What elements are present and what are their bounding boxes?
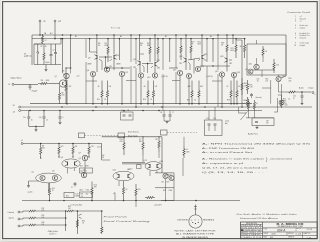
svg-text:R28: R28 (163, 190, 166, 192)
resistor 220 (158, 137, 160, 152)
wire emitter q21 (142, 65, 144, 67)
svg-text:2N398: 2N398 (116, 64, 121, 66)
wire midline (102, 136, 162, 138)
resistor R16 1K (122, 181, 124, 201)
svg-text:+10: +10 (81, 196, 84, 198)
svg-text:100: 100 (266, 80, 269, 82)
capacitor C3 250pF (29, 84, 31, 86)
svg-text:2K: 2K (221, 45, 224, 47)
wire x207 drop (206, 39, 208, 62)
svg-text:Q32: Q32 (245, 69, 248, 71)
svg-text:470: 470 (266, 123, 269, 125)
svg-text:2K2: 2K2 (61, 146, 64, 148)
svg-text:47K: 47K (69, 86, 73, 88)
wire x207 lower (206, 66, 208, 104)
wire (65, 95, 67, 104)
transistor pinout circle (189, 215, 202, 228)
wire emitter q22 (151, 66, 153, 68)
svg-text:ground R: ground R (155, 203, 163, 206)
ground (35, 126, 37, 128)
resistor row x236 (235, 39, 237, 58)
wire pair base join 1 (99, 56, 112, 58)
svg-text:Output: Output (300, 26, 306, 29)
svg-text:DATE: DATE (264, 236, 268, 239)
wire drop (118, 39, 120, 60)
scan edge right (319, 0, 320, 242)
resistor pair x148 (147, 84, 149, 104)
terminal output (312, 92, 314, 94)
rail A (30, 103, 252, 105)
svg-text:Control: Control (8, 211, 15, 214)
svg-text:Q28: Q28 (220, 56, 223, 58)
svg-text:TITLE: TITLE (264, 229, 268, 231)
pot marker (114, 193, 116, 201)
transistor fund marks (79, 214, 82, 216)
svg-text:C22: C22 (257, 78, 260, 80)
svg-text:-C: -C (300, 21, 303, 23)
wire h y81 c (172, 80, 180, 82)
svg-text:2.2: 2.2 (288, 98, 290, 100)
wire (253, 69, 275, 71)
transistor Q20 (231, 72, 236, 77)
svg-text:R10: R10 (97, 99, 100, 101)
svg-text:C: C (198, 220, 199, 222)
rail junctions (66, 103, 68, 105)
svg-text:39K: 39K (94, 187, 98, 189)
bus rail 1 (32, 34, 286, 36)
resistor R13 (91, 182, 93, 201)
svg-text:1K: 1K (227, 86, 230, 88)
wire (29, 83, 39, 85)
svg-text:Q9: Q9 (88, 58, 90, 60)
svg-text:R52: R52 (266, 78, 269, 80)
svg-text:unless otherwise marked: unless otherwise marked (270, 157, 293, 160)
wire (185, 62, 187, 71)
svg-text:2N3: 2N3 (229, 63, 232, 65)
svg-text:2N3: 2N3 (157, 68, 160, 70)
svg-text:Output: Output (308, 86, 314, 89)
svg-text:+50: +50 (39, 117, 42, 119)
terminal rail C (19, 110, 21, 112)
svg-text:Connector Detail: Connector Detail (287, 11, 311, 14)
title block blob (241, 229, 243, 231)
wire h y54 b (140, 53, 144, 55)
svg-text:IN PARENTHESES: IN PARENTHESES (182, 236, 209, 239)
svg-text:10: 10 (294, 45, 296, 47)
transistor Q7 (59, 80, 66, 87)
svg-text:-B: -B (13, 105, 16, 107)
wire column (66, 80, 68, 104)
svg-text:Q?: Q? (79, 153, 81, 155)
svg-text:+10: +10 (204, 60, 207, 62)
capacitor C23 (251, 93, 253, 94)
svg-text:6K8: 6K8 (147, 45, 150, 47)
dashed boundary right (167, 132, 197, 134)
wire bus end (232, 35, 234, 44)
wire (277, 98, 279, 112)
svg-text:1K: 1K (126, 189, 129, 191)
svg-text:C1 B: C1 B (97, 147, 102, 149)
wire fund vertical (76, 211, 78, 234)
svg-text:R12: R12 (52, 188, 55, 190)
bus rail 2 (32, 38, 245, 40)
wire column (92, 77, 94, 104)
svg-text:Q8: Q8 (87, 70, 89, 72)
resistor row x191 (190, 39, 192, 60)
svg-text:2K: 2K (191, 44, 194, 46)
cap cluster x162 (163, 111, 165, 115)
matched pair oval Q4 Q5 (62, 159, 80, 168)
wire left edge drop (31, 35, 33, 65)
wire x176 drop (175, 35, 177, 68)
junction (39, 34, 41, 36)
svg-text:1K: 1K (194, 100, 196, 102)
svg-text:Q4: Q4 (61, 157, 63, 159)
wire (299, 91, 312, 93)
svg-text:6K8: 6K8 (231, 50, 234, 52)
resistor pair x192 (191, 84, 193, 104)
label R21 box (80, 192, 93, 198)
transistor Q16 (177, 70, 182, 75)
svg-text:R27: R27 (167, 182, 170, 184)
wire (246, 117, 274, 119)
svg-text:470: 470 (120, 141, 123, 143)
wire drop (226, 35, 228, 39)
svg-text:25: 25 (121, 110, 123, 112)
resistor R51 (246, 97, 248, 107)
svg-text:R. A. MOOG CO: R. A. MOOG CO (277, 222, 304, 226)
svg-text:A₃: in circuit Pinout Set: A₃: in circuit Pinout Set (202, 151, 253, 154)
wire row continue (75, 210, 102, 212)
resistor 4K7 (142, 137, 144, 155)
svg-text:A₂: PNP Transistors 2N 404: A₂: PNP Transistors 2N 404 (202, 147, 256, 150)
wire input join vertical (65, 211, 67, 231)
wire interconnect y68c (200, 65, 230, 67)
wire x163 lower (162, 74, 164, 111)
svg-text:Q14: Q14 (147, 77, 150, 79)
wire fund right vertical (101, 211, 103, 226)
transistor Q11 (104, 67, 109, 72)
resistor R18 (135, 184, 137, 201)
wire vertical x242 (241, 40, 243, 107)
resistor row x227 (226, 39, 228, 58)
resistor fund2 (101, 226, 103, 234)
cap cluster x122 (121, 112, 134, 120)
big matched pair oval Q1 Q2 (36, 173, 62, 183)
svg-text:4K: 4K (98, 86, 101, 88)
svg-text:audio: audio (28, 192, 34, 194)
pot arrow (241, 112, 248, 121)
svg-text:C16: C16 (213, 118, 216, 120)
svg-text:10K: 10K (42, 148, 46, 150)
wire (183, 137, 185, 146)
svg-text:A2: A2 (120, 35, 122, 38)
wire interconnect y68 (104, 67, 130, 69)
resistor R5 (65, 80, 67, 96)
rail C (21, 110, 262, 112)
resistor pair x231 (230, 84, 232, 104)
svg-text:Q18: Q18 (201, 66, 204, 68)
svg-text:(+1/2 B): (+1/2 B) (161, 76, 168, 78)
boundary box a (79, 133, 85, 138)
title block left rows (241, 223, 263, 225)
svg-text:REVISIONS: REVISIONS (246, 223, 257, 225)
svg-text:Fund Control Routing.: Fund Control Routing. (104, 220, 152, 223)
resistor 1K box (262, 46, 264, 58)
svg-text:6K8: 6K8 (198, 44, 201, 46)
wire (278, 82, 280, 92)
wire h y50 a (90, 51, 97, 53)
title hline3 (263, 234, 318, 236)
wire (23, 143, 102, 145)
control input terminal 2 (18, 218, 20, 220)
svg-text:For Sub. Audio ¾ Modules w: For Sub. Audio ¾ Modules with John (237, 213, 298, 216)
wire (278, 75, 280, 77)
svg-text:DWG NO: DWG NO (288, 233, 294, 235)
title block outer (241, 222, 318, 239)
svg-text:1K5: 1K5 (161, 182, 164, 184)
wire drop (185, 35, 187, 58)
svg-text:Q11: Q11 (127, 169, 130, 171)
wire (270, 80, 272, 104)
svg-text:2K: 2K (140, 45, 143, 47)
wire (281, 95, 283, 98)
svg-text:R21: R21 (81, 193, 84, 195)
svg-text:Ground: Ground (300, 36, 306, 39)
transistor Q6b (82, 155, 88, 161)
right mid box (155, 173, 174, 201)
svg-text:inputs: inputs (9, 216, 14, 219)
wire x183 down (182, 158, 184, 176)
svg-text:Signal Input: Signal Input (11, 76, 22, 79)
resistor R12 1K (48, 183, 50, 201)
svg-text:A₁: NPN Transistors) 2N 33: A₁: NPN Transistors) 2N 3392 (Except Q 3… (202, 142, 311, 145)
svg-text:50+: 50+ (23, 117, 26, 119)
transistor Q34 (279, 100, 284, 105)
svg-text:R28: R28 (227, 100, 230, 102)
ground (256, 126, 258, 127)
svg-text:ECN 2041 B 9-2: ECN 2041 B 9-2 (241, 228, 261, 230)
resistor row x181 (180, 39, 182, 60)
resistor R1 24 (41, 35, 43, 44)
svg-text:5: 5 (295, 27, 296, 29)
resistor 3K x244.6 (244, 39, 246, 58)
svg-text:Q16: Q16 (173, 70, 176, 72)
svg-text:Keybd: Keybd (300, 45, 305, 47)
transistor Q28 (226, 58, 228, 62)
resistor 1M (38, 82, 50, 84)
svg-text:A MOUNTING: A MOUNTING (178, 218, 190, 221)
resistor pair x102 (101, 84, 103, 104)
svg-text:R35: R35 (68, 206, 71, 208)
svg-text:Lamp: Lamp (225, 121, 229, 123)
svg-text:47K: 47K (102, 157, 105, 159)
resistor R50b (246, 80, 248, 94)
capacitor C24 (301, 91, 303, 93)
svg-text:R2: R2 (41, 46, 43, 48)
capacitor C1 120uF (50, 44, 52, 55)
output stage box (247, 44, 286, 75)
wire (67, 168, 69, 174)
wire pair base join 4 (229, 59, 232, 61)
svg-text:M: M (9, 84, 11, 86)
svg-text:100K: 100K (186, 152, 190, 154)
svg-text:4.7K: 4.7K (91, 146, 95, 148)
wire (123, 111, 125, 113)
svg-text:R57: R57 (284, 101, 287, 103)
svg-text:(Bias: (Bias (80, 190, 84, 192)
resistor R50 (241, 78, 243, 95)
wire column (233, 78, 235, 104)
resistor x2b (253, 100, 255, 111)
svg-text:Hammond Of the Above: Hammond Of the Above (240, 217, 279, 220)
svg-text:C2 .1: C2 .1 (53, 50, 57, 52)
svg-text:Q13: Q13 (160, 161, 163, 163)
transistor Q25 (201, 55, 203, 59)
svg-text:Q31: Q31 (282, 76, 285, 78)
title hline2 (263, 231, 318, 233)
svg-text:Q10: Q10 (116, 55, 119, 57)
resistor fund (76, 219, 78, 228)
zener D1 (37, 44, 39, 52)
svg-text:120µF: 120µF (45, 62, 50, 64)
svg-text:R6: R6 (62, 93, 64, 95)
resistor 15.4 (273, 59, 275, 73)
boundary box b (118, 133, 125, 138)
svg-text:1.5K: 1.5K (284, 103, 287, 105)
svg-text:A.2: A.2 (50, 32, 53, 35)
svg-text:F i l t e red: F i l t e red (111, 27, 120, 30)
transistor Q10 (113, 55, 115, 59)
svg-text:Audio Pass: Audio Pass (247, 132, 258, 135)
matched pair oval mid (113, 171, 134, 181)
svg-text:DWN 4 SEE EC: DWN 4 SEE EC (241, 234, 261, 236)
svg-text:1K: 1K (150, 99, 152, 101)
transistor Q19 (219, 72, 224, 77)
wire column (188, 79, 190, 104)
rail B (21, 106, 312, 108)
svg-text:470K: 470K (85, 166, 90, 168)
svg-text:.05: .05 (257, 80, 259, 82)
capacitor C7 (74, 182, 76, 183)
wire x131 drop (130, 35, 132, 62)
svg-text:1K: 1K (82, 223, 84, 225)
wire interconnect y68b (169, 67, 178, 69)
terminal -C (39, 20, 41, 22)
transistor Q14 (152, 73, 157, 78)
svg-text:DRWN BY: DRWN BY (288, 237, 294, 239)
vertical x136 cross (135, 201, 137, 208)
transistor Q32 (248, 69, 253, 74)
ground rail y200.5 (22, 200, 240, 202)
svg-text:Q22: Q22 (157, 60, 160, 62)
wire drop x70.7 (70, 35, 72, 68)
svg-text:1R: 1R (160, 112, 163, 114)
svg-text:22K: 22K (289, 80, 293, 82)
svg-text:R34(a) (culled: R34(a) (culled (48, 230, 58, 233)
bus rail 1 right drop (285, 35, 287, 76)
capacitor bank x44 (43, 111, 45, 117)
svg-text:Q5: Q5 (79, 158, 81, 160)
svg-text:x2: x2 (244, 103, 246, 105)
svg-text:C7: C7 (71, 187, 73, 189)
svg-text:Q30: Q30 (249, 64, 252, 66)
svg-text:Q (5, 17, 21, 26 are a ma: Q (5, 17, 21, 26 are a matched set (202, 167, 268, 170)
svg-text:250µµF: 250µµF (32, 91, 38, 93)
svg-text:R15: R15 (66, 195, 69, 197)
svg-text:≈ 0.75 amp Max: ≈ 0.75 amp Max (70, 205, 82, 207)
svg-text:+C: +C (58, 21, 61, 23)
svg-text:Q7: Q7 (55, 76, 57, 78)
resistor R55 h (285, 91, 299, 93)
svg-text:1T: 1T (172, 112, 174, 114)
ground audio (28, 181, 30, 185)
wire drop (212, 39, 214, 62)
svg-text:ALL TRANSISTORS TYPE: ALL TRANSISTORS TYPE (176, 233, 215, 236)
resistor x184 (183, 146, 185, 158)
wire (238, 107, 240, 113)
svg-text:3: 3 (295, 21, 296, 23)
pinout pins (192, 222, 193, 223)
svg-text:R16: R16 (143, 99, 146, 101)
svg-text:+C: +C (21, 140, 24, 142)
svg-text:R32: R32 (42, 215, 45, 217)
wire drop (201, 35, 203, 55)
svg-text:R54: R54 (283, 98, 286, 100)
wire double h (122, 161, 145, 163)
svg-text:15: 15 (31, 120, 33, 122)
svg-text:47K: 47K (75, 146, 79, 148)
svg-text:+1/2: +1/2 (76, 76, 79, 78)
svg-text:R17: R17 (80, 166, 83, 168)
dashed boundary left (85, 135, 119, 137)
capacitor in box (255, 120, 258, 122)
svg-text:Q19: Q19 (215, 71, 218, 73)
wire (60, 39, 62, 44)
svg-text:(Rear Panel): (Rear Panel) (128, 134, 138, 137)
svg-text:NOTE: LAST LETTER FOR: NOTE: LAST LETTER FOR (175, 229, 217, 232)
svg-text:1M: 1M (41, 80, 44, 82)
svg-text:R51: R51 (244, 100, 247, 102)
svg-text:Q23: Q23 (179, 56, 182, 58)
svg-text:4K7: 4K7 (139, 141, 142, 143)
resistor R35 (66, 210, 75, 212)
svg-text:+B: +B (13, 112, 16, 114)
svg-text:220: 220 (155, 139, 158, 141)
svg-text:6K8: 6K8 (105, 45, 108, 47)
svg-text:R33: R33 (42, 222, 45, 224)
svg-text:R19: R19 (102, 155, 105, 157)
wire (102, 159, 110, 161)
shield box x205 (205, 120, 223, 136)
terminal rail B (19, 106, 21, 108)
svg-text:1-18: 1-18 (307, 237, 312, 239)
wire x136 drop (135, 39, 137, 64)
svg-text:15.4: 15.4 (276, 65, 279, 67)
svg-text:DR: DR (109, 86, 112, 88)
svg-text:DR: DR (155, 86, 158, 88)
wire pair base join 3 (188, 58, 200, 60)
svg-text:A₄: Resistors ½ watt 5% ca: A₄: Resistors ½ watt 5% carbon (202, 157, 266, 161)
resistor R11 (72, 144, 74, 158)
svg-text:Trim): Trim) (86, 190, 90, 192)
svg-text:10K: 10K (68, 208, 71, 210)
pinout stem (195, 205, 197, 215)
scan edge left (0, 0, 1, 242)
svg-text:APR: APR (270, 236, 273, 239)
wire emitter q10 (110, 59, 113, 61)
svg-text:E: E (191, 220, 192, 222)
